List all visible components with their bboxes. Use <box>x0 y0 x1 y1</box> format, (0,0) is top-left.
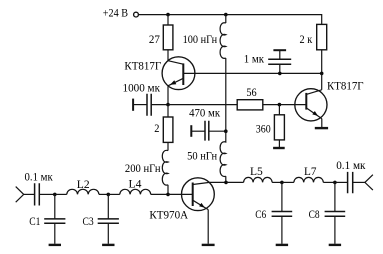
svg-text:1000 мк: 1000 мк <box>123 83 161 95</box>
svg-text:27: 27 <box>149 34 160 46</box>
wire C0 to C1 node <box>39 193 55 195</box>
wire L6 bottom to VT3 collector node <box>225 176 227 182</box>
wire VT3 emitter down <box>207 210 209 244</box>
ground bar under VT3 emitter <box>202 244 215 246</box>
ground bar under C3 <box>102 244 114 246</box>
wire C4 left lead <box>191 130 205 132</box>
svg-text:+24 В: +24 В <box>103 7 128 19</box>
junction C8 node <box>333 181 337 185</box>
wire R2 bottom lead <box>321 50 323 74</box>
wire R4 right lead to VT2 base <box>263 104 307 106</box>
svg-text:L4: L4 <box>129 179 142 191</box>
wire C1 bottom lead <box>54 223 56 244</box>
capacitor C4 470uF plates <box>205 121 209 141</box>
junction VT3 collector node <box>224 181 228 185</box>
svg-text:L2: L2 <box>77 179 90 191</box>
wire R5 top lead <box>278 105 280 115</box>
inductor L1 100 nH <box>220 23 226 59</box>
junction C6 node <box>280 181 284 185</box>
wire C1 top lead <box>54 194 56 219</box>
transistor VT3 base bar <box>192 183 194 207</box>
svg-text:L7: L7 <box>304 166 317 178</box>
wire C8 node to output cap <box>335 181 348 183</box>
inductor L3 200 nH <box>162 150 168 185</box>
junction C3 node <box>107 193 111 197</box>
junction on rail at L1 <box>224 13 228 17</box>
svg-text:56: 56 <box>246 87 257 99</box>
svg-text:КТ970А: КТ970А <box>149 209 188 221</box>
junction on rail at R1 <box>166 13 170 17</box>
wire 1000uF right lead <box>151 104 168 106</box>
transistor VT3 KT970A circle <box>182 178 215 211</box>
svg-text:C3: C3 <box>83 216 94 228</box>
wire R5 bottom lead <box>278 140 280 147</box>
transistor VT2 KT817G circle <box>295 89 327 121</box>
transistor VT3 emitter line <box>193 200 209 209</box>
resistor R2 2k <box>317 24 327 49</box>
inductor L5 <box>244 177 273 182</box>
inductor L2 <box>67 189 99 194</box>
junction node E1 <box>166 103 170 107</box>
svg-text:470 мк: 470 мк <box>189 107 220 119</box>
capacitor output 0.1uF plates <box>348 172 353 193</box>
ground bar above C2 1uF <box>273 49 286 51</box>
ground bar under C8 <box>329 244 341 246</box>
resistor R4 56 <box>237 100 263 110</box>
inductor L6 50 nH <box>220 131 226 176</box>
transistor VT3 collector line <box>193 182 226 184</box>
wire C4 right lead <box>209 130 226 132</box>
svg-text:КТ817Г: КТ817Г <box>124 60 161 72</box>
junction C1 node <box>53 193 57 197</box>
transistor VT3 emitter arrow <box>199 203 205 208</box>
wire L1 bottom down across base line to C4 node <box>225 58 227 131</box>
wire VT2 emitter down <box>321 119 323 127</box>
wire R1 top lead <box>167 15 169 25</box>
ground bar under R5 <box>273 147 285 149</box>
wire C6 top lead <box>281 182 283 211</box>
wire collector node to L5 <box>226 181 244 183</box>
wire VT1 base line to VT2 collector node <box>183 72 321 74</box>
svg-text:КТ817Г: КТ817Г <box>327 80 364 92</box>
svg-text:C6: C6 <box>255 209 266 221</box>
svg-text:50 нГн: 50 нГн <box>187 150 217 162</box>
svg-text:1 мк: 1 мк <box>244 54 265 66</box>
wire input to C0 <box>24 193 35 195</box>
transistor VT1 KT817G circle <box>162 57 195 90</box>
wire C6 bottom lead <box>281 216 283 244</box>
resistor R5 360 <box>274 115 284 140</box>
wire L1 top lead <box>225 15 227 23</box>
transistor VT2 emitter line <box>306 108 322 119</box>
capacitor C2 1uF plates <box>268 59 291 64</box>
inductor L7 <box>294 177 323 182</box>
junction C4 on inductor chain <box>224 129 228 133</box>
wire C3 bottom lead <box>107 223 109 244</box>
wire L3 bottom to base node <box>167 185 169 195</box>
wire R3 top lead <box>167 105 169 117</box>
svg-text:200 нГн: 200 нГн <box>125 163 161 175</box>
svg-text:C8: C8 <box>309 209 320 221</box>
wire R3 bottom lead <box>167 142 169 150</box>
capacitor C8 plates <box>325 212 346 217</box>
transistor VT1 emitter arrow <box>170 80 176 85</box>
junction VT3 base node <box>166 193 170 197</box>
capacitor C3 plates <box>98 219 119 223</box>
ground bar left of C4 470uF <box>190 125 192 137</box>
output connector <box>365 175 373 190</box>
ground bar under VT2 emitter <box>315 127 328 129</box>
wire base node to VT3 <box>168 193 193 195</box>
transistor VT2 collector line <box>306 90 321 95</box>
wire L7 to C8 node <box>323 181 335 183</box>
capacitor C6 plates <box>272 212 293 217</box>
svg-text:C1: C1 <box>29 216 40 228</box>
ground bar under C1 <box>49 244 61 246</box>
input connector <box>16 187 24 203</box>
wire top supply rail <box>138 15 321 25</box>
wire VT2 collector up <box>321 73 323 89</box>
wire C6 node to L7 <box>282 181 294 183</box>
wire 1uF lower lead <box>279 64 281 73</box>
wire 1000uF left lead <box>133 104 147 106</box>
wire C8 top lead <box>334 182 336 211</box>
resistor R3 2 <box>163 117 173 142</box>
wire C3 top lead <box>107 194 109 219</box>
ground bar left of 1000uF <box>132 99 134 111</box>
junction R5 tap <box>278 103 282 107</box>
wire node E1 to R4 56 <box>168 104 237 106</box>
wire C1 node to L2 <box>55 193 67 195</box>
+24 V supply terminal <box>134 12 139 17</box>
svg-text:360: 360 <box>256 123 271 135</box>
transistor VT1 base bar <box>182 63 184 85</box>
wire C8 bottom lead <box>334 216 336 244</box>
wire L2 to C3 node <box>99 193 108 195</box>
wire L4 to VT3 base node <box>151 193 168 195</box>
capacitor input 0.1uF plates <box>35 183 40 205</box>
junction 1uF on base line <box>278 72 282 76</box>
svg-text:0.1 мк: 0.1 мк <box>336 160 366 172</box>
wire C3 node to L4 <box>108 193 120 195</box>
transistor VT1 collector line <box>168 61 183 64</box>
inductor L4 <box>120 189 151 194</box>
wire output cap to connector <box>353 181 365 183</box>
wire 1uF upper lead <box>279 50 281 59</box>
wire VT1 emitter down to node E1 <box>167 86 169 105</box>
svg-text:2 к: 2 к <box>300 34 313 46</box>
transistor VT2 emitter arrow <box>312 111 318 116</box>
svg-text:2: 2 <box>154 123 159 135</box>
wire R1 bottom to VT1 collector <box>167 50 169 61</box>
ground bar under C6 <box>276 244 288 246</box>
capacitor 1000uF plates <box>147 94 151 116</box>
transistor VT1 emitter line <box>168 78 183 86</box>
capacitor C1 plates <box>44 219 65 223</box>
svg-text:L5: L5 <box>250 166 263 178</box>
wire L5 to C6 node <box>272 181 282 183</box>
transistor VT2 base bar <box>305 93 307 110</box>
resistor R1 27 <box>163 25 173 50</box>
svg-text:0.1 мк: 0.1 мк <box>25 171 54 183</box>
svg-text:100 нГн: 100 нГн <box>183 34 218 46</box>
junction base line / VT2 collector <box>320 72 324 76</box>
